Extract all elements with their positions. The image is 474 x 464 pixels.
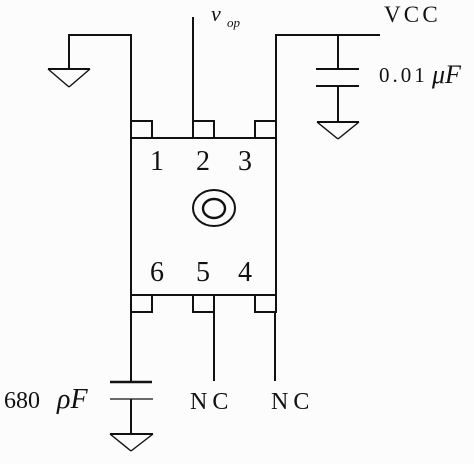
ground GND1 (top-left) [48, 69, 90, 87]
crystal symbol inner circle [203, 199, 225, 218]
capacitor C1 plates [316, 68, 359, 70]
pin 1 bump [131, 121, 152, 138]
wire: pin4 vertical down [274, 312, 276, 381]
pin 3 bump [255, 121, 276, 138]
svg-text:680: 680 [4, 388, 40, 414]
capacitor C1 0.01uF stem top [337, 35, 339, 69]
wire: pin2 vertical to vop [192, 17, 194, 122]
ground GND2 (below C1) [317, 122, 359, 139]
svg-text:v: v [211, 1, 221, 26]
pin 4 bump [255, 295, 276, 312]
capacitor C2 680pF plates [110, 381, 152, 383]
svg-text:3: 3 [238, 146, 252, 177]
svg-text:NC: NC [190, 389, 233, 415]
wire: pin3 vertical [275, 35, 277, 122]
ground GND3 (below C2) [110, 434, 153, 451]
pin 5 bump [193, 295, 214, 312]
pin 6 bump [131, 295, 152, 312]
svg-text:0.01: 0.01 [379, 63, 428, 87]
svg-text:1: 1 [150, 146, 164, 177]
svg-text:4: 4 [238, 257, 252, 288]
svg-text:NC: NC [271, 389, 314, 415]
crystal symbol outer circle [193, 190, 235, 226]
svg-text:op: op [227, 15, 241, 30]
pin 2 bump [193, 121, 214, 138]
svg-text:5: 5 [196, 257, 210, 288]
IC U1 body [131, 138, 276, 295]
wire: pin6 vertical down [130, 312, 132, 382]
wire: ground stem vertical [68, 34, 70, 69]
wire: VCC horizontal [275, 34, 380, 36]
capacitor C1 stem bottom [337, 86, 339, 122]
capacitor C2 stem [130, 399, 132, 434]
wire: pin1 vertical [130, 35, 132, 122]
svg-text:2: 2 [196, 146, 210, 177]
wire: top-left horizontal from ground stem to pin1 [69, 34, 132, 36]
wire: pin5 vertical down [213, 312, 215, 381]
svg-text:VCC: VCC [384, 2, 441, 27]
svg-text:μF: μF [431, 60, 462, 89]
svg-text:6: 6 [150, 257, 164, 288]
svg-text:ρF: ρF [56, 384, 88, 415]
